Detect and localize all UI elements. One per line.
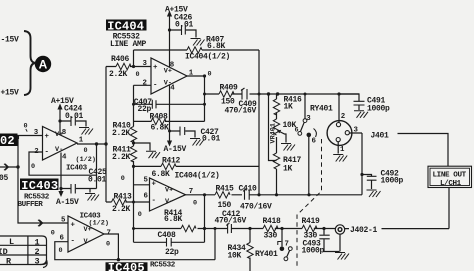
wire XLR pin1 ground — [337, 142, 339, 154]
ground C493 J402 — [335, 253, 349, 260]
svg-text:R409: R409 — [220, 84, 239, 93]
node A circle — [35, 56, 51, 72]
svg-text:V-: V- — [165, 198, 173, 206]
wire buffer to R406 vertical — [105, 67, 107, 203]
wire C492 branch — [362, 175, 372, 190]
capacitor C407 22p — [152, 100, 156, 109]
op-amp IC403 second half triangle — [68, 216, 104, 252]
wire IC403b feedback loop — [55, 242, 119, 260]
ground C426 — [191, 39, 205, 46]
svg-text:0.01: 0.01 — [175, 20, 194, 29]
resistor R412 6.8K — [161, 163, 176, 169]
svg-text:5: 5 — [61, 216, 66, 224]
supply arrow A-15V at IC404a — [167, 141, 172, 147]
svg-text:A-15V: A-15V — [56, 198, 79, 207]
resistor R419 330 — [302, 225, 317, 231]
label box IC405 — [106, 262, 148, 271]
ground C427 — [190, 139, 204, 146]
svg-text:0: 0 — [136, 71, 140, 79]
svg-text:BUFFER: BUFFER — [18, 201, 44, 209]
relay contact 6 lower-left — [298, 132, 302, 136]
svg-text:1000p: 1000p — [381, 176, 404, 185]
svg-text:1K: 1K — [283, 164, 293, 173]
svg-text:7: 7 — [107, 230, 111, 238]
svg-text:IC404(1/2): IC404(1/2) — [185, 53, 230, 62]
resistor R408 6.8K — [151, 118, 166, 124]
svg-text:+: + — [152, 181, 157, 189]
svg-text:A-15V: A-15V — [164, 145, 187, 154]
wire IC403b output — [104, 234, 118, 260]
wire output rail y196 — [205, 194, 363, 196]
svg-text:IC403: IC403 — [66, 164, 88, 172]
svg-text:J402-1: J402-1 — [350, 226, 378, 235]
svg-text:05: 05 — [0, 174, 9, 183]
svg-text:0: 0 — [106, 241, 110, 249]
svg-text:1000p: 1000p — [302, 246, 325, 255]
svg-text:C410: C410 — [239, 184, 258, 193]
wire R413 — [106, 201, 150, 203]
svg-text:(1/2): (1/2) — [76, 156, 96, 164]
RCA jack J402 — [335, 225, 344, 234]
svg-text:1: 1 — [340, 146, 345, 154]
svg-text:0: 0 — [51, 230, 55, 238]
wire R408 rail — [134, 94, 205, 121]
relay pole dot upper — [307, 133, 312, 138]
svg-text:IC405: IC405 — [108, 261, 145, 271]
svg-text:+: + — [45, 133, 50, 141]
input wire tick — [19, 129, 28, 139]
relay contact 7 — [288, 247, 292, 251]
supply arrow A-15V at IC403a — [58, 191, 63, 197]
wire bottom rail — [118, 229, 215, 260]
svg-text:2: 2 — [35, 247, 40, 257]
svg-text:1000p: 1000p — [367, 104, 390, 113]
svg-text:-: - — [153, 82, 157, 90]
resistor R417 1K — [273, 153, 279, 169]
svg-text:6.8K: 6.8K — [151, 124, 170, 133]
capacitor C412 470/16V polarized — [226, 223, 231, 233]
svg-text:LINE AMP: LINE AMP — [110, 40, 147, 49]
wire R412 rail — [134, 165, 260, 167]
ground R410 R411 junction — [146, 151, 160, 158]
wire C408 rail — [134, 241, 205, 243]
wire IC404a pin2 stub — [134, 84, 152, 86]
svg-text:1K: 1K — [284, 103, 294, 112]
XLR connector J401 body — [327, 121, 352, 146]
svg-text:V+: V+ — [164, 67, 172, 75]
svg-text:0.01: 0.01 — [88, 175, 107, 184]
svg-text:R408: R408 — [150, 113, 169, 122]
svg-text:R406: R406 — [111, 55, 130, 64]
svg-text:RC5532: RC5532 — [150, 261, 176, 269]
wire A+15V to IC404a pin8 — [169, 16, 171, 67]
wire R434 — [249, 229, 251, 271]
svg-text:L: L — [9, 237, 14, 247]
svg-text:1: 1 — [79, 137, 84, 145]
label box IC403 — [20, 179, 59, 191]
wire relay contact3 drop — [304, 94, 306, 119]
resistor R406 2.2K — [116, 63, 131, 69]
svg-text:R413: R413 — [114, 192, 133, 201]
wire IC404a pin4 supply — [169, 85, 171, 141]
wire relay pole drop — [308, 137, 310, 195]
svg-text:3: 3 — [35, 257, 40, 267]
svg-text:V+: V+ — [165, 187, 173, 195]
svg-text:0.01: 0.01 — [202, 135, 221, 144]
ground C425 — [85, 194, 99, 201]
label box IC402 — [0, 134, 18, 147]
capacitor C426 0.01 — [182, 25, 186, 35]
potentiometer VR401 10K — [273, 119, 279, 135]
wire IC403a feedback loop — [29, 144, 97, 175]
svg-text:7: 7 — [189, 188, 193, 196]
svg-text:6: 6 — [144, 193, 149, 201]
op-amp U=IC403 first half triangle — [43, 127, 78, 161]
svg-text:+: + — [153, 64, 158, 72]
capacitor C427 0.01 — [180, 127, 185, 136]
wire cross-couple vertical right — [258, 50, 260, 195]
svg-text:R419: R419 — [302, 217, 321, 226]
wire C426 branch — [170, 30, 197, 38]
svg-text:IC404: IC404 — [107, 19, 144, 33]
svg-text:1: 1 — [35, 237, 40, 247]
capacitor C408 22p — [167, 238, 172, 247]
brace — [24, 31, 36, 95]
svg-text:150: 150 — [218, 201, 232, 210]
resistor R415 150 — [215, 192, 230, 198]
supply arrow A+15V at IC404a — [167, 11, 172, 17]
resistor R413 2.2K — [112, 199, 127, 205]
wire C425 branch — [61, 175, 97, 192]
svg-text:J401: J401 — [371, 132, 390, 141]
svg-text:2: 2 — [143, 79, 147, 87]
svg-text:5: 5 — [144, 177, 149, 185]
svg-text:V+: V+ — [84, 226, 92, 234]
svg-text:R412: R412 — [162, 157, 181, 166]
wire C407 rail — [134, 103, 205, 105]
svg-text:6: 6 — [60, 234, 65, 242]
ground XLR pin1 — [333, 155, 347, 162]
XLR pin 3 — [345, 131, 349, 135]
svg-text:3: 3 — [306, 115, 311, 123]
wire IC404b output — [186, 195, 205, 243]
relay upper lever — [300, 122, 304, 131]
wire C493 and jack ground — [324, 229, 340, 252]
svg-text:2: 2 — [341, 113, 345, 121]
svg-text:-: - — [71, 237, 75, 245]
svg-text:2.2K: 2.2K — [112, 153, 131, 162]
svg-text:0: 0 — [138, 211, 142, 219]
svg-text:470/16V: 470/16V — [215, 217, 247, 226]
resistor R411 2.2K — [130, 146, 136, 162]
resistor R418 330 — [263, 225, 278, 231]
wire J401 line — [398, 134, 449, 167]
wire VR401 wiper to ground — [279, 131, 287, 143]
capacitor C424 0.01 — [71, 116, 75, 126]
label box IC404 — [106, 20, 147, 31]
svg-text:R415: R415 — [216, 184, 235, 193]
connector table — [0, 236, 47, 268]
signal arrow input IC403b — [36, 220, 43, 226]
relay contact 3 — [303, 119, 307, 123]
capacitor C493 1000p — [319, 235, 329, 239]
svg-text:2.2K: 2.2K — [112, 129, 131, 138]
svg-text:R: R — [6, 257, 12, 267]
wire R406 — [106, 66, 151, 68]
svg-text:V-: V- — [84, 238, 92, 246]
svg-text:470/16V: 470/16V — [240, 203, 272, 212]
svg-text:0: 0 — [24, 122, 28, 130]
ground VR401 wiper — [281, 144, 295, 151]
svg-text:V-: V- — [164, 79, 172, 87]
relay pole arc upper — [314, 129, 317, 138]
svg-text:IC403: IC403 — [21, 179, 58, 193]
wire IC403a pin8 supply — [59, 106, 61, 135]
wire XLR pin3 to J401 node — [349, 133, 362, 195]
svg-text:+: + — [71, 221, 76, 229]
svg-text:-15V: -15V — [1, 36, 20, 45]
svg-text:3: 3 — [143, 60, 148, 68]
svg-text:0: 0 — [208, 71, 212, 79]
svg-text:2.2K: 2.2K — [109, 70, 128, 79]
wire R416 VR401 R417 chain — [276, 94, 278, 195]
op-amp IC404 second half triangle — [150, 178, 186, 211]
wire R414 C412 R418 R419 rail — [134, 228, 336, 230]
capacitor C491 1000p — [354, 101, 365, 105]
svg-text:LINE OUT: LINE OUT — [433, 172, 467, 180]
ground C424 — [79, 128, 93, 135]
svg-text:ID: ID — [0, 247, 8, 257]
wire input L channel — [0, 167, 68, 223]
capacitor C409 470/16V polarized — [241, 88, 247, 100]
svg-text:0: 0 — [121, 175, 125, 183]
resistor R407 6.8K — [187, 47, 202, 53]
svg-text:-: - — [152, 197, 156, 205]
XLR pin 1 — [336, 138, 340, 142]
svg-text:3: 3 — [354, 126, 359, 134]
svg-text:2.2K: 2.2K — [112, 205, 131, 214]
wire C424 branch — [60, 121, 86, 127]
svg-text:0: 0 — [31, 163, 35, 171]
svg-text:22p: 22p — [165, 248, 179, 257]
svg-text:470/16V: 470/16V — [225, 107, 257, 116]
svg-text:6.8K: 6.8K — [152, 170, 171, 179]
svg-text:10K: 10K — [228, 252, 242, 261]
svg-text:0: 0 — [59, 247, 63, 255]
svg-text:L/CH1: L/CH1 — [440, 180, 462, 188]
LINE OUT box — [428, 166, 472, 187]
ground C492 — [367, 190, 381, 197]
wire IC404a output — [187, 76, 205, 94]
wire main output rail y94 — [205, 93, 360, 95]
wire IC403a pin4 supply — [60, 153, 62, 194]
svg-text:0.01: 0.01 — [65, 112, 84, 121]
resistor R416 1K — [273, 99, 279, 115]
wire chain loop — [269, 94, 277, 161]
relay lower bracket mark — [278, 242, 282, 246]
svg-text:02: 02 — [0, 134, 15, 148]
svg-text:3: 3 — [34, 129, 39, 137]
svg-text:2: 2 — [34, 148, 38, 156]
wire IC403a pin3 input — [18, 136, 43, 168]
svg-text:C408: C408 — [158, 231, 177, 240]
svg-text:R418: R418 — [263, 217, 282, 226]
supply arrow A+15V at IC403a — [57, 104, 62, 110]
svg-text:A: A — [39, 58, 48, 72]
svg-text:IC404(1/2): IC404(1/2) — [175, 172, 220, 181]
svg-text:6: 6 — [312, 137, 317, 145]
svg-text:RY401: RY401 — [255, 250, 278, 259]
svg-text:6.8K: 6.8K — [207, 42, 226, 51]
resistor R409 150 — [219, 91, 234, 97]
signal arrow input top — [2, 164, 9, 170]
wire relay lower pole drop — [281, 229, 283, 247]
resistor R414 6.8K — [181, 225, 196, 231]
relay dashed linkage — [297, 139, 322, 266]
VR401 wiper arrowhead — [277, 130, 282, 134]
svg-text:V-: V- — [55, 146, 63, 154]
resistor R434 10K — [247, 243, 253, 259]
relay lower lever — [287, 250, 290, 256]
svg-text:330: 330 — [264, 232, 278, 241]
capacitor C425 0.01 — [71, 184, 75, 194]
XLR pin 2 — [336, 123, 340, 127]
svg-text:0: 0 — [84, 147, 88, 155]
svg-text:RY401: RY401 — [310, 104, 333, 113]
relay lower second contact — [284, 257, 288, 261]
op-amp IC404 first half triangle — [151, 58, 187, 94]
svg-text:1: 1 — [189, 69, 194, 77]
svg-text:V+: V+ — [55, 131, 63, 139]
svg-text:+15V: +15V — [1, 89, 20, 98]
wire XLR pin2 — [338, 94, 340, 123]
capacitor C492 1000p — [367, 176, 377, 180]
wire IC404b pin5 stub — [134, 184, 150, 186]
ground C491 — [354, 111, 368, 118]
svg-text:4: 4 — [62, 153, 67, 161]
svg-text:0: 0 — [193, 200, 197, 208]
wire R407 feedback rail — [134, 49, 260, 51]
svg-text:-: - — [45, 149, 49, 157]
svg-text:VR401: VR401 — [270, 123, 278, 143]
wire R410 R411 midpoint ground — [134, 143, 151, 151]
wire C491 branch — [340, 94, 359, 110]
svg-text:7: 7 — [285, 240, 289, 248]
wire main vertical x=133.5 — [133, 50, 135, 242]
relay pole dot lower — [280, 246, 285, 251]
svg-text:6.8K: 6.8K — [164, 215, 183, 224]
wire IC403a output — [77, 143, 106, 145]
wire J402 line — [345, 188, 449, 229]
svg-text:150: 150 — [221, 97, 235, 106]
resistor R410 2.2K — [130, 127, 136, 143]
svg-text:6: 6 — [295, 127, 299, 135]
capacitor C410 470/16V polarized — [243, 189, 249, 200]
wire C427 branch — [170, 131, 196, 138]
